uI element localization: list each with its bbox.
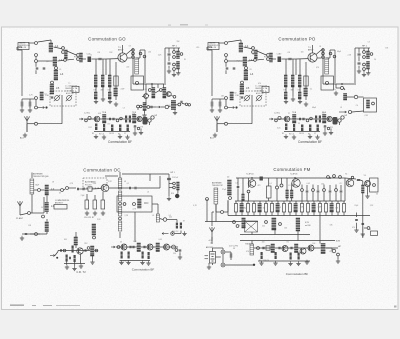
label HP FM	[338, 246, 342, 248]
resistor R5	[114, 76, 118, 86]
FM wire U1	[301, 185, 303, 202]
value label near (92,184)	[93, 183, 97, 185]
FM antenna coil L1	[214, 188, 218, 204]
label PO	[74, 57, 77, 59]
FM ladder wire Rl1	[235, 201, 237, 216]
oscillator box	[117, 196, 152, 212]
wire T1 to column	[316, 49, 323, 59]
decoupling coil Da	[94, 75, 98, 87]
svg-text:TELESCOPIQUE: TELESCOPIQUE	[33, 176, 49, 178]
switch contact S1e	[55, 67, 58, 70]
FM upper can b	[241, 194, 245, 201]
FI ground b	[72, 266, 76, 270]
svg-text:C4: C4	[98, 52, 100, 54]
svg-text:100: 100	[262, 241, 265, 243]
svg-text:C4: C4	[374, 59, 376, 61]
svg-text:L5: L5	[124, 181, 126, 183]
svg-text:T.3: T.3	[345, 174, 347, 176]
value label near (123,108)	[123, 107, 125, 109]
FM upper contact e	[276, 186, 279, 189]
wire chain b	[271, 58, 296, 60]
CV note line1	[255, 85, 268, 88]
FI vertical feed	[75, 232, 77, 248]
contact LR a	[163, 218, 167, 222]
IF can M2	[113, 88, 118, 96]
CV note line4	[256, 92, 264, 95]
value label near (258,186)	[257, 185, 260, 187]
FI ground d	[90, 260, 94, 264]
value label near (322,114)	[322, 113, 326, 115]
svg-text:27pF: 27pF	[121, 89, 125, 91]
BF input choke FM	[250, 244, 254, 255]
svg-text:R2 C3: R2 C3	[99, 134, 104, 136]
contact FM r	[367, 227, 370, 230]
cluster ground a	[357, 69, 361, 73]
capacitor FM out a	[357, 179, 360, 180]
FI bottom rail	[64, 263, 85, 265]
battery plates	[211, 254, 215, 261]
value label near (222,190)	[222, 189, 226, 191]
decoupling coil Dc	[298, 75, 302, 87]
FM ladder resistor Rl9	[282, 204, 285, 213]
oscillator box	[131, 76, 144, 90]
column contact c	[132, 56, 135, 59]
FI contact c	[95, 249, 98, 252]
FI gnd wires	[67, 254, 93, 266]
capacitor C20	[151, 106, 152, 109]
FM rail junction b	[294, 177, 296, 179]
cluster ground c	[176, 71, 180, 75]
IF module coil	[366, 100, 370, 108]
supply rail	[133, 83, 166, 85]
svg-text:R12: R12	[233, 93, 236, 95]
svg-text:33: 33	[120, 241, 122, 243]
svg-text:R12: R12	[89, 127, 92, 129]
svg-text:6,8V: 6,8V	[336, 241, 341, 243]
capacitor C15	[168, 54, 171, 55]
wire S1c to L2	[38, 60, 53, 62]
capacitor C15	[358, 54, 361, 55]
resistor BF FM r1	[261, 252, 263, 259]
svg-text:470: 470	[258, 83, 261, 85]
FM wire U7	[335, 185, 337, 202]
svg-text:68pF: 68pF	[35, 185, 39, 187]
arrow AGC out	[228, 106, 235, 108]
oscillator padding coil L5	[239, 85, 249, 95]
resistor R4	[93, 200, 97, 209]
svg-text:Commutation BF: Commutation BF	[298, 140, 322, 144]
capacitor C16	[168, 63, 171, 64]
contact S1b	[42, 215, 45, 218]
label Commutation BF PO	[298, 140, 322, 144]
AGC terminal	[235, 106, 237, 108]
IF module contact	[372, 102, 375, 105]
earphone jack body	[143, 117, 148, 125]
wire L1 to S3	[244, 47, 252, 49]
capacitor C7	[129, 187, 130, 190]
wire top chain a	[34, 189, 45, 191]
wire cadre down to left rail	[17, 47, 22, 50]
value label near (184,60)	[184, 59, 187, 61]
switch contact S4c	[180, 53, 183, 56]
arrow AGC out	[38, 106, 45, 108]
contact FM ant	[221, 211, 224, 214]
oscillator coil L1	[238, 43, 248, 52]
value label near (80,196)	[81, 195, 85, 197]
switch contact S3a	[62, 47, 65, 50]
value label near (148,52)	[148, 51, 151, 53]
FI mid rail	[55, 251, 98, 256]
svg-text:F10: F10	[236, 95, 239, 97]
BF contact mid a	[306, 119, 309, 122]
BF OC out wiring	[179, 252, 181, 255]
wire LR bottom	[175, 231, 181, 234]
value label near (143,90)	[143, 89, 147, 91]
resistor R11	[103, 124, 105, 131]
svg-text:27pF: 27pF	[354, 205, 358, 207]
FM coupling capacitor Cu4	[317, 191, 320, 192]
svg-text:68pF: 68pF	[243, 207, 247, 209]
wire IF mid	[346, 96, 364, 98]
contact under L2	[229, 197, 232, 200]
label ajustable	[85, 181, 96, 184]
svg-text:T2: T2	[64, 54, 66, 56]
label R row 3	[299, 133, 304, 135]
FM mid rail	[235, 200, 345, 202]
IF switch contact	[341, 87, 344, 90]
BF ground a	[94, 134, 98, 138]
capacitor C29	[134, 126, 137, 127]
value label near (262,242)	[262, 241, 265, 243]
label C.02	[87, 54, 91, 56]
capacitor C8	[135, 187, 136, 190]
switch contact S3a	[252, 47, 255, 50]
label VOL	[84, 113, 90, 115]
FM ladder resistor Rl15	[318, 204, 321, 213]
value label near (368,230)	[368, 229, 371, 231]
header mark 3	[205, 25, 208, 26]
wire T1 collector up	[122, 45, 124, 53]
FM wire U3	[312, 185, 314, 202]
label ou FM	[305, 225, 311, 227]
svg-text:L5: L5	[56, 86, 60, 90]
AF preamp transistor T5	[94, 116, 100, 122]
switch contact antenna	[225, 122, 228, 125]
contact IF r1c	[173, 95, 176, 98]
driver transformer FM	[270, 244, 275, 253]
svg-text:220: 220	[148, 51, 151, 53]
FM ladder resistor Rl10	[288, 204, 291, 213]
drop wire a	[285, 59, 287, 75]
AGC top wire	[22, 98, 34, 100]
IF module box	[364, 98, 377, 112]
value label near (30,96)	[29, 95, 33, 97]
AGC contact a	[35, 97, 38, 100]
FI resistor Rc	[74, 255, 76, 262]
capacitor BF FM 2	[279, 247, 280, 250]
svg-text:L4: L4	[60, 72, 64, 76]
FM lower rail verticals	[207, 178, 345, 222]
value label near (288,186)	[288, 185, 290, 187]
wire FM ant coil down	[215, 204, 217, 212]
AF preamp transistor T5	[284, 116, 290, 122]
svg-text:R4: R4	[284, 90, 286, 92]
svg-text:C4 R5: C4 R5	[299, 133, 304, 135]
contact IF row2 e	[178, 103, 181, 106]
label R16	[171, 193, 174, 195]
value label near (280,208)	[279, 207, 281, 209]
svg-text:C.FI. T2: C.FI. T2	[76, 270, 86, 274]
battery label specks	[205, 255, 209, 256]
FM ratio det box	[370, 178, 379, 192]
FM ladder wire Rl12	[301, 201, 303, 216]
BF FM transistor T6	[300, 248, 306, 254]
value label near (244,208)	[243, 207, 247, 209]
speaker terminal a	[332, 249, 336, 253]
column contact a	[132, 49, 135, 52]
oscillator transistor contact	[135, 81, 138, 84]
HP terminal dot	[175, 194, 179, 198]
jack contact a	[338, 119, 341, 122]
label F10	[46, 95, 49, 97]
svg-text:ANT.EXT: ANT.EXT	[55, 202, 64, 205]
label R row 2	[99, 134, 104, 136]
ground FM det	[365, 194, 369, 198]
title Commutation FM	[273, 167, 310, 172]
wire chain stub down	[295, 59, 297, 75]
FM ladder coil Ll2	[239, 204, 244, 213]
svg-text:T.1 AF114: T.1 AF114	[246, 173, 254, 176]
FI output coil	[90, 246, 95, 256]
capacitor C9	[219, 102, 221, 107]
resistor R5	[101, 200, 105, 209]
BF FM ground a	[259, 261, 263, 265]
capacitor C7	[241, 97, 244, 98]
footer mark 4	[56, 304, 80, 307]
FI capacitor Cc	[69, 257, 70, 260]
battery contact dot b	[222, 264, 224, 266]
svg-text:33: 33	[298, 123, 300, 125]
decoupling coil Dc	[108, 75, 112, 87]
contact col b	[119, 217, 122, 220]
left IF feed	[115, 62, 117, 100]
label +4.5V	[208, 240, 213, 242]
cluster feed vertical	[334, 50, 336, 83]
svg-text:Commutation BF: Commutation BF	[132, 268, 155, 272]
ground IF strip	[142, 113, 146, 117]
ground AGC a	[210, 108, 214, 112]
label HP1	[172, 46, 178, 48]
label C.02	[277, 54, 281, 56]
CV note line4	[66, 92, 74, 95]
output transformer OC	[155, 243, 160, 252]
antenna label	[20, 137, 25, 140]
FM upper wire d	[268, 178, 270, 201]
switch contact S4b	[173, 56, 176, 59]
capacitor C6	[233, 68, 236, 69]
value label near (96,252)	[96, 251, 99, 253]
BF input contact	[85, 119, 88, 122]
ground FM right a	[354, 228, 358, 232]
AF output transistor T6	[327, 116, 332, 121]
svg-text:220: 220	[150, 107, 153, 109]
BF ground e	[323, 131, 327, 135]
whip antenna	[17, 201, 22, 215]
title Commutation PO	[278, 37, 316, 42]
contact LR b	[171, 232, 175, 236]
svg-text:PO-GO: PO-GO	[85, 185, 92, 187]
contact under can	[93, 236, 96, 239]
svg-text:PL.ANT: PL.ANT	[16, 217, 24, 220]
wire cadre to S1a	[218, 42, 224, 44]
capacitor C6	[43, 68, 46, 69]
svg-text:Commutation GO: Commutation GO	[88, 37, 126, 42]
FM RF transistor T1	[248, 180, 256, 188]
svg-text:47pF: 47pF	[318, 207, 322, 209]
FM interconnect b	[319, 241, 321, 244]
IF transformer A	[151, 88, 155, 99]
value label near (284,228)	[284, 227, 287, 229]
svg-text:C+VOL: C+VOL	[274, 113, 280, 115]
svg-text:0,1: 0,1	[127, 183, 129, 185]
cluster top wire	[355, 47, 370, 49]
FM ladder coil Ll5	[257, 204, 262, 213]
contact det a	[265, 221, 268, 224]
switch contact S1c	[225, 60, 228, 63]
switch contact S1f	[51, 81, 54, 84]
label antenne telescopique 1	[33, 173, 43, 176]
svg-text:Commutation FM: Commutation FM	[273, 167, 310, 172]
IF transistor T3	[166, 92, 171, 97]
value label near (126,68)	[126, 67, 129, 69]
label T1	[308, 47, 311, 49]
value label near (140,128)	[140, 127, 144, 129]
oscillator transistor contact	[325, 81, 328, 84]
FM coupling capacitor Cu8	[340, 191, 343, 192]
label VOL	[274, 113, 280, 115]
value label near (318,208)	[318, 207, 322, 209]
value label near (168,216)	[169, 215, 171, 217]
wire antenna to switch	[27, 124, 34, 132]
wire antenna run	[228, 95, 252, 124]
FM ladder wire Rl9	[283, 201, 285, 216]
wire S1c to L2	[228, 60, 243, 62]
contact IF row2 a	[137, 105, 140, 108]
svg-text:470: 470	[246, 251, 249, 253]
value label near (298,124)	[298, 123, 300, 125]
switch contact S4a	[363, 51, 366, 54]
capacitor BF C6	[133, 246, 134, 249]
AGC contact b	[225, 106, 228, 109]
label F10	[236, 95, 239, 97]
BF OC ground c	[140, 260, 144, 264]
BF OC bottom rail	[120, 260, 150, 262]
svg-text:T2: T2	[288, 113, 290, 115]
column contact c	[322, 56, 325, 59]
resistor BF FM r3	[290, 253, 292, 260]
svg-text:470: 470	[352, 227, 355, 229]
value label near (288,114)	[288, 113, 290, 115]
wire chain b	[81, 58, 106, 60]
svg-text:68pF: 68pF	[312, 107, 316, 109]
label R row 1	[282, 133, 284, 135]
FM ladder resistor Rl6	[264, 204, 267, 213]
HP drop	[168, 174, 170, 196]
CV note line3	[65, 91, 73, 93]
ground Dc	[108, 99, 112, 103]
contact S1c	[35, 233, 38, 236]
wire S1a up to L1	[228, 40, 241, 43]
header mark 1	[168, 25, 171, 26]
FM ladder coil Ll14	[311, 204, 316, 213]
contact IF row2 d	[165, 105, 168, 108]
earphone jack body	[333, 117, 338, 125]
svg-text:AJUS. PA: AJUS. PA	[256, 92, 264, 95]
label FM R row	[259, 260, 269, 262]
jack contact a	[148, 119, 151, 122]
BF OC ground d	[146, 261, 150, 265]
switch contact S1a	[225, 42, 228, 45]
value label near (68,84)	[68, 83, 70, 85]
FM ladder wire Rl4	[253, 201, 255, 216]
BF ground d	[125, 135, 129, 139]
page corner mark	[394, 306, 397, 308]
resistor BF R2	[128, 252, 130, 259]
battery contact dot a	[222, 251, 224, 253]
AGC filter can F10	[39, 92, 43, 100]
svg-text:C7: C7	[124, 133, 126, 135]
svg-text:L3: L3	[147, 191, 149, 193]
footer mark 3	[43, 305, 52, 306]
FM wire U5	[323, 185, 325, 202]
label R row 1	[92, 133, 94, 135]
label -9V	[210, 243, 214, 245]
svg-text:T2: T2	[68, 83, 70, 85]
ground R3	[85, 211, 89, 215]
value label near (340,108)	[340, 107, 342, 109]
value label near (84,244)	[84, 243, 87, 245]
label TR1	[102, 112, 107, 114]
label Dc	[108, 90, 111, 92]
CV note line2	[65, 87, 78, 90]
label CADRE PO line3	[209, 46, 217, 49]
BF contact mid b	[120, 117, 123, 120]
switch contact S4d	[173, 63, 176, 66]
svg-text:AJUS. PA: AJUS. PA	[66, 92, 74, 95]
svg-text:R1: R1	[282, 133, 284, 135]
svg-text:470: 470	[196, 47, 199, 49]
wire chain a	[58, 51, 77, 61]
label HP	[345, 115, 348, 117]
value label near (98,220)	[97, 219, 101, 221]
decoupling coil Dd	[284, 92, 288, 99]
label Commutation BF GO	[108, 140, 132, 144]
svg-text:HP 1: HP 1	[171, 172, 175, 174]
wire speaker gnd	[337, 256, 339, 259]
antenna ground	[23, 133, 27, 137]
resistor R5	[304, 76, 308, 86]
capacitor block C3	[278, 57, 282, 63]
svg-text:0,05: 0,05	[277, 127, 280, 129]
CV note line3	[255, 91, 263, 93]
switch contact S1c	[35, 60, 38, 63]
value label near (120,242)	[120, 241, 122, 243]
svg-text:220: 220	[262, 225, 265, 227]
value label near (70,184)	[70, 183, 74, 185]
switch contact S4b	[363, 56, 366, 59]
svg-text:T.2 AF115: T.2 AF115	[290, 173, 298, 176]
svg-text:L2: L2	[51, 187, 55, 191]
